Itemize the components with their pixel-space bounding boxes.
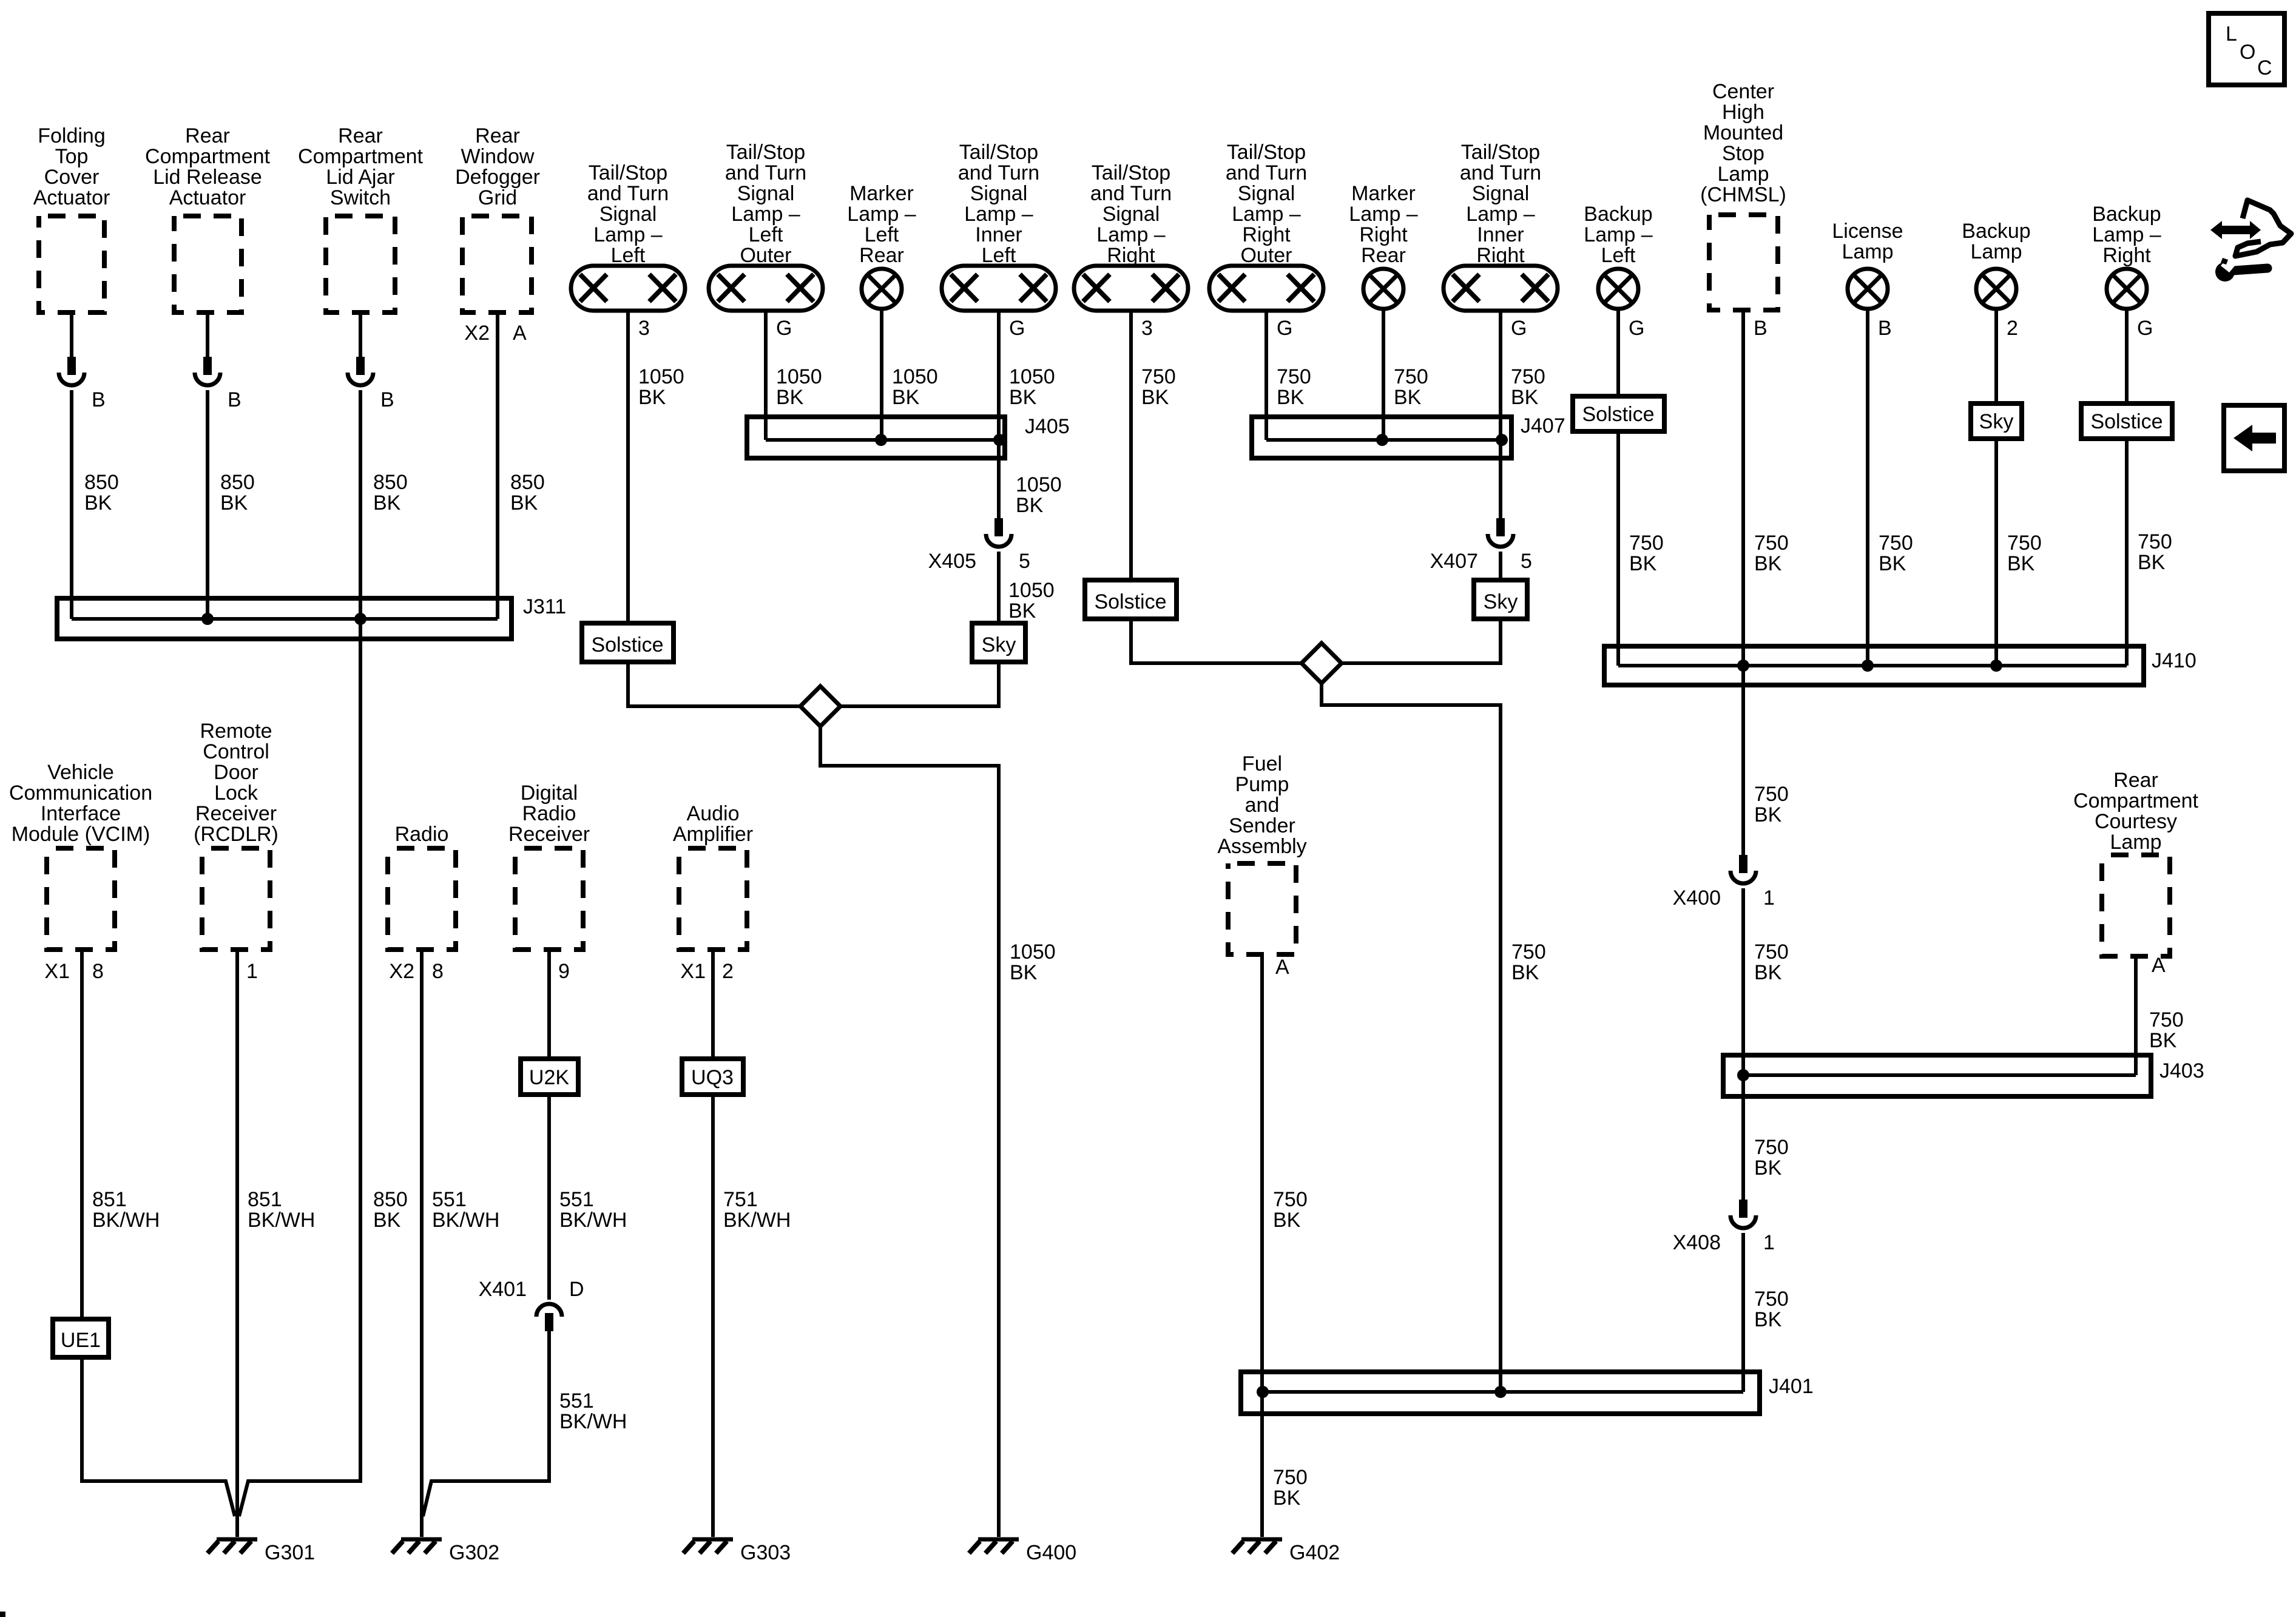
page corner mark <box>0 1612 5 1617</box>
in-line connector X408 <box>1730 1200 1756 1228</box>
svg-text:1: 1 <box>1763 1231 1775 1254</box>
svg-text:BK: BK <box>1754 552 1782 575</box>
option box Sky (right) <box>1474 580 1527 619</box>
tail/stop and turn signal lamp - right <box>1074 266 1188 311</box>
svg-text:MarkerLamp –LeftRear: MarkerLamp –LeftRear <box>847 182 916 267</box>
J407 bus <box>1266 438 1502 442</box>
svg-text:Sky: Sky <box>982 633 1016 657</box>
wire 750 BK to J410 <box>1994 439 1998 666</box>
wire backup lamp right <box>2125 308 2129 403</box>
svg-text:UQ3: UQ3 <box>691 1066 734 1089</box>
svg-text:Solstice: Solstice <box>1582 403 1654 426</box>
svg-text:8: 8 <box>92 960 104 983</box>
component box rear compartment lid ajar switch <box>326 216 395 312</box>
svg-text:BK: BK <box>2138 551 2166 574</box>
J311 bus <box>72 617 498 621</box>
junction dot <box>875 434 887 446</box>
junction dot <box>1257 1386 1269 1398</box>
svg-text:X2: X2 <box>389 960 414 983</box>
svg-text:X408: X408 <box>1673 1231 1721 1254</box>
svg-text:RearCompartmentCourtesyLamp: RearCompartmentCourtesyLamp <box>2073 769 2199 854</box>
svg-text:1050: 1050 <box>1008 579 1055 602</box>
svg-text:551: 551 <box>559 1389 594 1413</box>
wire from box to connector <box>70 312 73 357</box>
svg-text:D: D <box>569 1278 584 1301</box>
component box CHMSL <box>1709 215 1778 310</box>
option box Solstice (right) <box>1085 580 1177 619</box>
svg-text:750: 750 <box>1277 365 1311 388</box>
svg-text:B: B <box>1754 317 1768 340</box>
svg-text:J403: J403 <box>2159 1059 2204 1082</box>
component box folding top cover actuator <box>39 216 104 312</box>
svg-text:BK: BK <box>1141 386 1169 409</box>
svg-text:Sky: Sky <box>1979 410 2014 433</box>
J405 bus <box>766 438 999 442</box>
svg-text:G400: G400 <box>1026 1541 1076 1564</box>
svg-text:B: B <box>228 388 241 411</box>
junction dot <box>993 434 1005 446</box>
splice J311 <box>57 598 512 639</box>
splice diamond (right) <box>1302 643 1342 683</box>
svg-text:FuelPumpandSenderAssembly: FuelPumpandSenderAssembly <box>1217 752 1306 858</box>
in-line connector X407 <box>1488 518 1513 547</box>
wire 850 BK defogger to J311 <box>496 312 499 619</box>
svg-text:LicenseLamp: LicenseLamp <box>1832 220 1903 263</box>
svg-text:G303: G303 <box>740 1541 791 1564</box>
svg-text:750: 750 <box>2138 530 2172 553</box>
svg-text:750: 750 <box>1394 365 1428 388</box>
svg-text:Tail/Stopand TurnSignalLamp –L: Tail/Stopand TurnSignalLamp –LeftOuter <box>725 141 806 267</box>
svg-text:FoldingTopCoverActuator: FoldingTopCoverActuator <box>33 124 110 209</box>
component box rear compartment courtesy lamp <box>2102 855 2170 956</box>
component box rear window defogger grid <box>462 216 532 312</box>
backup lamp <box>1976 269 2016 309</box>
svg-text:BK: BK <box>1754 1308 1782 1331</box>
wire 751 BK/WH to G303 <box>711 1095 715 1537</box>
in-line connector B (col 2) <box>195 357 220 385</box>
wire 750 BK courtesy lamp to J403 <box>2134 956 2138 1075</box>
svg-text:BK: BK <box>1273 1209 1301 1232</box>
svg-text:Radio: Radio <box>395 823 449 846</box>
wire from box to connector <box>206 312 209 357</box>
svg-text:BackupLamp –Right: BackupLamp –Right <box>2092 203 2161 267</box>
in-line connector B (col 1) <box>59 357 84 385</box>
svg-text:C: C <box>2257 56 2272 79</box>
svg-text:L: L <box>2226 22 2237 46</box>
svg-text:BK: BK <box>1754 803 1782 826</box>
svg-text:G: G <box>1277 317 1292 340</box>
svg-text:BK: BK <box>1016 494 1044 517</box>
svg-text:X1: X1 <box>44 960 70 983</box>
wire sky to splice diamond <box>840 662 999 706</box>
svg-text:B: B <box>1878 317 1892 340</box>
ground G400 <box>969 1539 1076 1564</box>
wire 850 BK to J311 <box>359 390 362 619</box>
wire to Sky box <box>1499 552 1502 580</box>
tail/stop and turn signal lamp - inner left <box>942 266 1056 311</box>
junction dot <box>1990 660 2002 672</box>
svg-text:BK: BK <box>1754 1156 1782 1180</box>
marker lamp - left rear <box>862 269 902 309</box>
component box rear compartment lid release actuator <box>174 216 241 312</box>
svg-text:1050: 1050 <box>1009 365 1055 388</box>
back arrow box <box>2224 405 2284 471</box>
splice diamond (left) <box>800 686 840 726</box>
svg-text:BK: BK <box>2007 552 2035 575</box>
svg-text:BK: BK <box>373 491 401 515</box>
svg-text:BK: BK <box>1009 386 1037 409</box>
svg-text:750: 750 <box>1273 1188 1308 1211</box>
svg-text:A: A <box>513 322 527 345</box>
svg-text:J407: J407 <box>1521 414 1565 437</box>
svg-text:G: G <box>2137 317 2153 340</box>
svg-text:MarkerLamp –RightRear: MarkerLamp –RightRear <box>1349 182 1417 267</box>
svg-text:BK/WH: BK/WH <box>248 1209 315 1232</box>
wire to UQ3 <box>711 950 715 1059</box>
svg-text:851: 851 <box>92 1188 127 1211</box>
wire 750 BK fuel pump to G402 <box>1260 954 1264 1537</box>
svg-text:BK: BK <box>1273 1487 1301 1510</box>
svg-text:BK: BK <box>1277 386 1305 409</box>
svg-text:850: 850 <box>220 471 255 494</box>
option box Sky (left) <box>972 623 1025 662</box>
wire to U2K <box>547 950 551 1059</box>
option box Solstice (backup right) <box>2081 403 2172 439</box>
svg-text:X401: X401 <box>479 1278 527 1301</box>
svg-text:851: 851 <box>248 1188 282 1211</box>
svg-text:BK: BK <box>1511 961 1539 984</box>
component box digital radio receiver <box>515 848 583 950</box>
in-line connector X400 <box>1730 855 1756 883</box>
svg-text:1050: 1050 <box>776 365 822 388</box>
svg-text:BK: BK <box>638 386 666 409</box>
wire 750 BK inner right <box>1499 311 1502 518</box>
svg-text:BK: BK <box>373 1209 401 1232</box>
svg-text:BK: BK <box>84 491 112 515</box>
splice J405 <box>747 417 1005 458</box>
wire 850 BK from J311 to G301 <box>239 619 360 1516</box>
tail/stop and turn signal lamp - right outer <box>1209 266 1323 311</box>
wire 750 BK to J401 <box>1322 683 1501 1392</box>
junction dot <box>1737 1069 1749 1081</box>
svg-text:UE1: UE1 <box>61 1329 101 1352</box>
wire 750 BK right outer <box>1264 311 1268 440</box>
svg-text:RearWindowDefoggerGrid: RearWindowDefoggerGrid <box>455 124 540 209</box>
wire 750 BK tail/stop right <box>1129 311 1133 580</box>
svg-text:1050: 1050 <box>1010 940 1056 964</box>
svg-text:551: 551 <box>432 1188 467 1211</box>
in-line connector B (col 3) <box>348 357 373 385</box>
svg-text:850: 850 <box>373 471 408 494</box>
J401 bus <box>1263 1390 1743 1394</box>
wire 750 BK to J410 <box>2125 439 2129 666</box>
junction dot <box>1862 660 1874 672</box>
svg-text:CenterHighMountedStopLamp(CHMS: CenterHighMountedStopLamp(CHMSL) <box>1700 80 1786 206</box>
svg-text:BackupLamp –Left: BackupLamp –Left <box>1584 203 1652 267</box>
svg-text:BK/WH: BK/WH <box>92 1209 160 1232</box>
marker lamp - right rear <box>1363 269 1403 309</box>
svg-text:1050: 1050 <box>1016 473 1062 496</box>
svg-text:Tail/Stopand TurnSignalLamp –I: Tail/Stopand TurnSignalLamp –InnerLeft <box>958 141 1039 267</box>
wire 1050 BK marker left <box>880 309 883 440</box>
svg-text:3: 3 <box>1141 317 1153 340</box>
svg-text:J311: J311 <box>523 595 566 618</box>
svg-text:J410: J410 <box>2152 649 2196 672</box>
svg-text:BK/WH: BK/WH <box>559 1209 627 1232</box>
svg-text:G301: G301 <box>265 1541 315 1564</box>
option box UQ3 <box>682 1059 743 1095</box>
J410 bus <box>1618 664 2127 667</box>
junction dot <box>1496 434 1508 446</box>
svg-text:G: G <box>1511 317 1527 340</box>
service icon: double arrow, harness outline, wrench <box>2210 200 2291 282</box>
splice J407 <box>1252 417 1511 458</box>
svg-text:AudioAmplifier: AudioAmplifier <box>673 802 753 846</box>
svg-text:750: 750 <box>2149 1008 2184 1031</box>
component box fuel pump and sender assembly <box>1228 863 1296 954</box>
wire 1050 BK to G400 <box>820 726 999 1537</box>
svg-text:BK: BK <box>220 491 248 515</box>
svg-text:J405: J405 <box>1025 415 1070 438</box>
svg-text:BK: BK <box>892 386 920 409</box>
option box Solstice (backup left) <box>1573 396 1664 431</box>
wire 1050 BK left outer <box>764 311 768 440</box>
svg-text:G: G <box>1629 317 1644 340</box>
svg-text:Tail/Stopand TurnSignalLamp –R: Tail/Stopand TurnSignalLamp –RightOuter <box>1226 141 1307 267</box>
ground G302 <box>392 1539 499 1564</box>
junction dot <box>1376 434 1388 446</box>
svg-text:5: 5 <box>1019 550 1030 573</box>
wire 750 BK CHMSL <box>1741 310 1745 855</box>
svg-text:750: 750 <box>1629 532 1664 555</box>
svg-text:2: 2 <box>722 960 734 983</box>
svg-text:BK: BK <box>1394 386 1422 409</box>
svg-text:1050: 1050 <box>892 365 938 388</box>
svg-text:1: 1 <box>246 960 258 983</box>
svg-text:750: 750 <box>1273 1466 1308 1489</box>
svg-text:BK/WH: BK/WH <box>723 1209 791 1232</box>
svg-text:750: 750 <box>1879 532 1913 555</box>
wire 851 BK/WH VCIM <box>80 950 84 1319</box>
svg-text:551: 551 <box>559 1188 594 1211</box>
svg-text:Sky: Sky <box>1484 590 1518 613</box>
svg-text:1050: 1050 <box>638 365 684 388</box>
svg-text:VehicleCommunicationInterfaceM: VehicleCommunicationInterfaceModule (VCI… <box>9 761 152 846</box>
component box radio <box>388 848 456 950</box>
wire 1050 BK inner left <box>997 311 1001 518</box>
wire 750 BK to J410 <box>1616 431 1620 666</box>
J403 bus <box>1743 1073 2136 1077</box>
wire from box to connector <box>359 312 362 357</box>
svg-text:A: A <box>2152 954 2166 977</box>
tail/stop and turn signal lamp - left <box>571 266 685 311</box>
wire 551 BK/WH to G302 <box>423 1331 549 1516</box>
junction dot <box>1494 1386 1507 1398</box>
option box Solstice (left) <box>582 623 674 662</box>
wire 850 BK to J311 <box>70 390 73 619</box>
junction dot <box>201 613 214 625</box>
svg-text:RemoteControlDoorLockReceiver(: RemoteControlDoorLockReceiver(RCDLR) <box>194 720 279 846</box>
wire 551 BK/WH radio to G302 <box>420 950 424 1537</box>
ground G301 <box>208 1539 315 1564</box>
option box UE1 <box>53 1319 109 1357</box>
svg-text:750: 750 <box>1511 365 1545 388</box>
svg-text:BK: BK <box>776 386 804 409</box>
svg-text:O: O <box>2240 41 2255 64</box>
svg-text:BK: BK <box>2149 1029 2177 1052</box>
LOC legend box <box>2209 13 2284 85</box>
svg-text:750: 750 <box>1754 940 1789 964</box>
option box U2K <box>521 1059 578 1095</box>
svg-text:G: G <box>1009 317 1025 340</box>
tail/stop and turn signal lamp - left outer <box>709 266 823 311</box>
svg-text:750: 750 <box>1754 1136 1789 1159</box>
svg-text:8: 8 <box>432 960 444 983</box>
wire 750 BK to J401 <box>1741 1233 1745 1392</box>
svg-text:A: A <box>1275 956 1289 979</box>
wire backup lamp left <box>1616 310 1620 396</box>
wire 851 BK/WH RCDLR to G301 <box>235 950 239 1537</box>
svg-text:3: 3 <box>638 317 650 340</box>
in-line connector X405 <box>986 518 1011 547</box>
svg-text:2: 2 <box>2007 317 2018 340</box>
svg-text:750: 750 <box>1754 532 1789 555</box>
wire solstice to splice diamond <box>628 662 800 706</box>
ground G402 <box>1232 1539 1340 1564</box>
svg-text:5: 5 <box>1521 550 1532 573</box>
svg-text:BK: BK <box>1010 961 1038 984</box>
svg-text:750: 750 <box>1141 365 1176 388</box>
svg-text:BK/WH: BK/WH <box>559 1410 627 1433</box>
svg-text:9: 9 <box>558 960 570 983</box>
component box RCDLR <box>202 848 270 950</box>
svg-text:X400: X400 <box>1673 886 1721 910</box>
svg-text:Tail/Stopand TurnSignalLamp –I: Tail/Stopand TurnSignalLamp –InnerRight <box>1460 141 1541 267</box>
svg-text:X407: X407 <box>1430 550 1478 573</box>
splice J410 <box>1604 646 2144 685</box>
wire 750 BK to X408 <box>1741 888 1745 1200</box>
svg-text:G302: G302 <box>449 1541 499 1564</box>
svg-text:Solstice: Solstice <box>591 633 663 657</box>
svg-text:X405: X405 <box>928 550 976 573</box>
svg-text:750: 750 <box>2007 532 2042 555</box>
svg-text:BK: BK <box>1879 552 1906 575</box>
svg-text:B: B <box>380 388 394 411</box>
svg-text:750: 750 <box>1754 783 1789 806</box>
svg-text:750: 750 <box>1754 1288 1789 1311</box>
junction dot <box>354 613 366 625</box>
tail/stop and turn signal lamp - inner right <box>1443 266 1558 311</box>
svg-text:1: 1 <box>1763 886 1775 910</box>
svg-text:BK/WH: BK/WH <box>432 1209 499 1232</box>
svg-text:RearCompartmentLid AjarSwitch: RearCompartmentLid AjarSwitch <box>298 124 424 209</box>
ground G303 <box>683 1539 791 1564</box>
wire solstice to splice diamond <box>1131 619 1302 663</box>
svg-text:Solstice: Solstice <box>2090 410 2163 433</box>
svg-text:Tail/Stopand TurnSignalLamp –R: Tail/Stopand TurnSignalLamp –Right <box>1090 161 1172 267</box>
wire to Sky box <box>997 552 1001 623</box>
wire 1050 BK tail/stop left <box>626 311 630 623</box>
wire 750 BK license lamp <box>1866 308 1869 666</box>
svg-text:Tail/Stopand TurnSignalLamp –L: Tail/Stopand TurnSignalLamp –Left <box>587 161 669 267</box>
in-line connector X401 <box>536 1304 562 1331</box>
svg-text:X1: X1 <box>680 960 706 983</box>
junction dot <box>1737 660 1749 672</box>
svg-text:BK: BK <box>1008 599 1036 623</box>
svg-text:850: 850 <box>84 471 119 494</box>
wire to G301 <box>82 1357 235 1516</box>
svg-text:Solstice: Solstice <box>1094 590 1166 613</box>
svg-text:U2K: U2K <box>529 1066 569 1089</box>
license lamp <box>1848 269 1888 309</box>
wire 850 BK to J311 <box>206 390 209 619</box>
svg-text:BK: BK <box>1754 961 1782 984</box>
backup lamp - right <box>2107 269 2147 309</box>
svg-text:BackupLamp: BackupLamp <box>1962 220 2030 263</box>
svg-text:850: 850 <box>373 1188 408 1211</box>
component box VCIM <box>47 848 115 950</box>
splice J403 <box>1723 1055 2151 1096</box>
svg-text:J401: J401 <box>1769 1375 1814 1398</box>
wire 750 BK marker right <box>1382 309 1385 440</box>
svg-text:BK: BK <box>1629 552 1657 575</box>
svg-text:DigitalRadioReceiver: DigitalRadioReceiver <box>508 781 590 846</box>
splice J401 <box>1241 1372 1760 1414</box>
wire 551 BK/WH to X401 <box>547 1095 551 1300</box>
svg-text:G402: G402 <box>1289 1541 1340 1564</box>
wire sky to splice diamond <box>1342 619 1501 663</box>
svg-text:751: 751 <box>723 1188 758 1211</box>
svg-text:750: 750 <box>1511 940 1546 964</box>
svg-text:BK: BK <box>1511 386 1539 409</box>
backup lamp - left <box>1598 269 1638 309</box>
wire backup lamp <box>1994 308 1998 403</box>
svg-text:X2: X2 <box>464 322 490 345</box>
svg-text:850: 850 <box>510 471 545 494</box>
svg-text:B: B <box>92 388 106 411</box>
option box Sky (backup) <box>1971 403 2022 439</box>
component box audio amplifier <box>679 848 747 950</box>
svg-text:G: G <box>776 317 792 340</box>
svg-text:BK: BK <box>510 491 538 515</box>
svg-text:RearCompartmentLid ReleaseActu: RearCompartmentLid ReleaseActuator <box>145 124 271 209</box>
